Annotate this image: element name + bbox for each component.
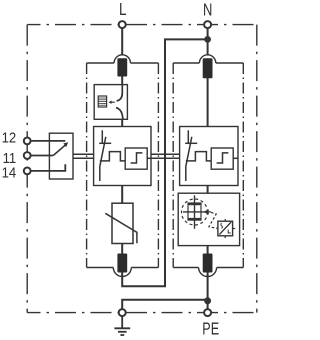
varistor RV1: [112, 203, 133, 243]
svg-text:L: L: [119, 0, 127, 19]
label 14: [2, 164, 17, 181]
wire N module internal column: [207, 77, 209, 127]
wire N junction to inter-module conductor: [122, 39, 207, 286]
node N junction: [204, 36, 211, 43]
svg-text:14: 14: [2, 164, 17, 181]
wire terminal 14: [31, 164, 66, 171]
disconnector F1 (thermal, L top): [117, 58, 127, 76]
remote signalling contact box: [49, 133, 73, 179]
spark gap box (N module): [180, 127, 238, 186]
module L boundary (plug-in module, dash-dot sides): [87, 55, 159, 277]
ground symbol: [114, 316, 130, 335]
triggered spark gap box (N module lower): [178, 193, 239, 245]
trigger circle (dashed): [182, 199, 208, 225]
disconnect switch contacts (curved): [117, 85, 123, 101]
disconnector F3 (thermal, N top): [203, 58, 213, 78]
trigger link (dashed zigzag): [209, 212, 218, 228]
svg-text:PE: PE: [202, 319, 219, 339]
label 11: [3, 149, 17, 166]
terminal PE: [204, 309, 211, 316]
monitoring element (hatched block): [98, 96, 106, 107]
label N: [203, 1, 212, 21]
trigger unit box: [218, 221, 233, 236]
terminal ground: [119, 309, 126, 316]
enclosure (device boundary, dash-dot): [27, 25, 257, 313]
disconnector F4 (thermal, N bottom): [203, 254, 213, 273]
actuation arrow: [111, 101, 115, 103]
label L: [119, 0, 127, 19]
wire terminal 12: [31, 140, 66, 142]
spark gap symbol (N): [185, 130, 211, 181]
module N boundary (plug-in module, dash-dot sides): [173, 55, 243, 277]
label 12: [2, 129, 17, 146]
svg-text:12: 12: [2, 129, 17, 146]
switching element box with step glyph (N): [211, 148, 233, 169]
wire earth link: [122, 300, 207, 309]
wire L drop: [121, 28, 123, 55]
wire N drop: [207, 28, 209, 55]
spark gap electrodes: [187, 202, 201, 205]
linkage (double lines, L spark gap to N spark gap): [151, 153, 180, 155]
terminal 12: [24, 138, 31, 145]
terminal N: [204, 21, 211, 28]
terminal L: [119, 21, 126, 28]
wire L module internal column: [121, 77, 123, 85]
disconnector F2 (thermal, L bottom): [117, 254, 127, 273]
spark gap symbol (L): [99, 130, 125, 181]
label PE: [202, 319, 219, 339]
monitoring device box (L module): [94, 85, 127, 120]
switching element box with step glyph (L): [125, 148, 147, 169]
wire terminal 11: [31, 155, 54, 157]
svg-text:N: N: [203, 1, 212, 21]
spark gap box (L module): [94, 127, 151, 186]
linkage (double lines, contact box to L spark gap): [73, 153, 94, 155]
changeover contact blade: [53, 145, 65, 156]
node PE junction: [204, 297, 211, 304]
trigger arrow: [203, 209, 209, 214]
terminal 14: [24, 168, 31, 175]
terminal 11: [24, 152, 31, 159]
